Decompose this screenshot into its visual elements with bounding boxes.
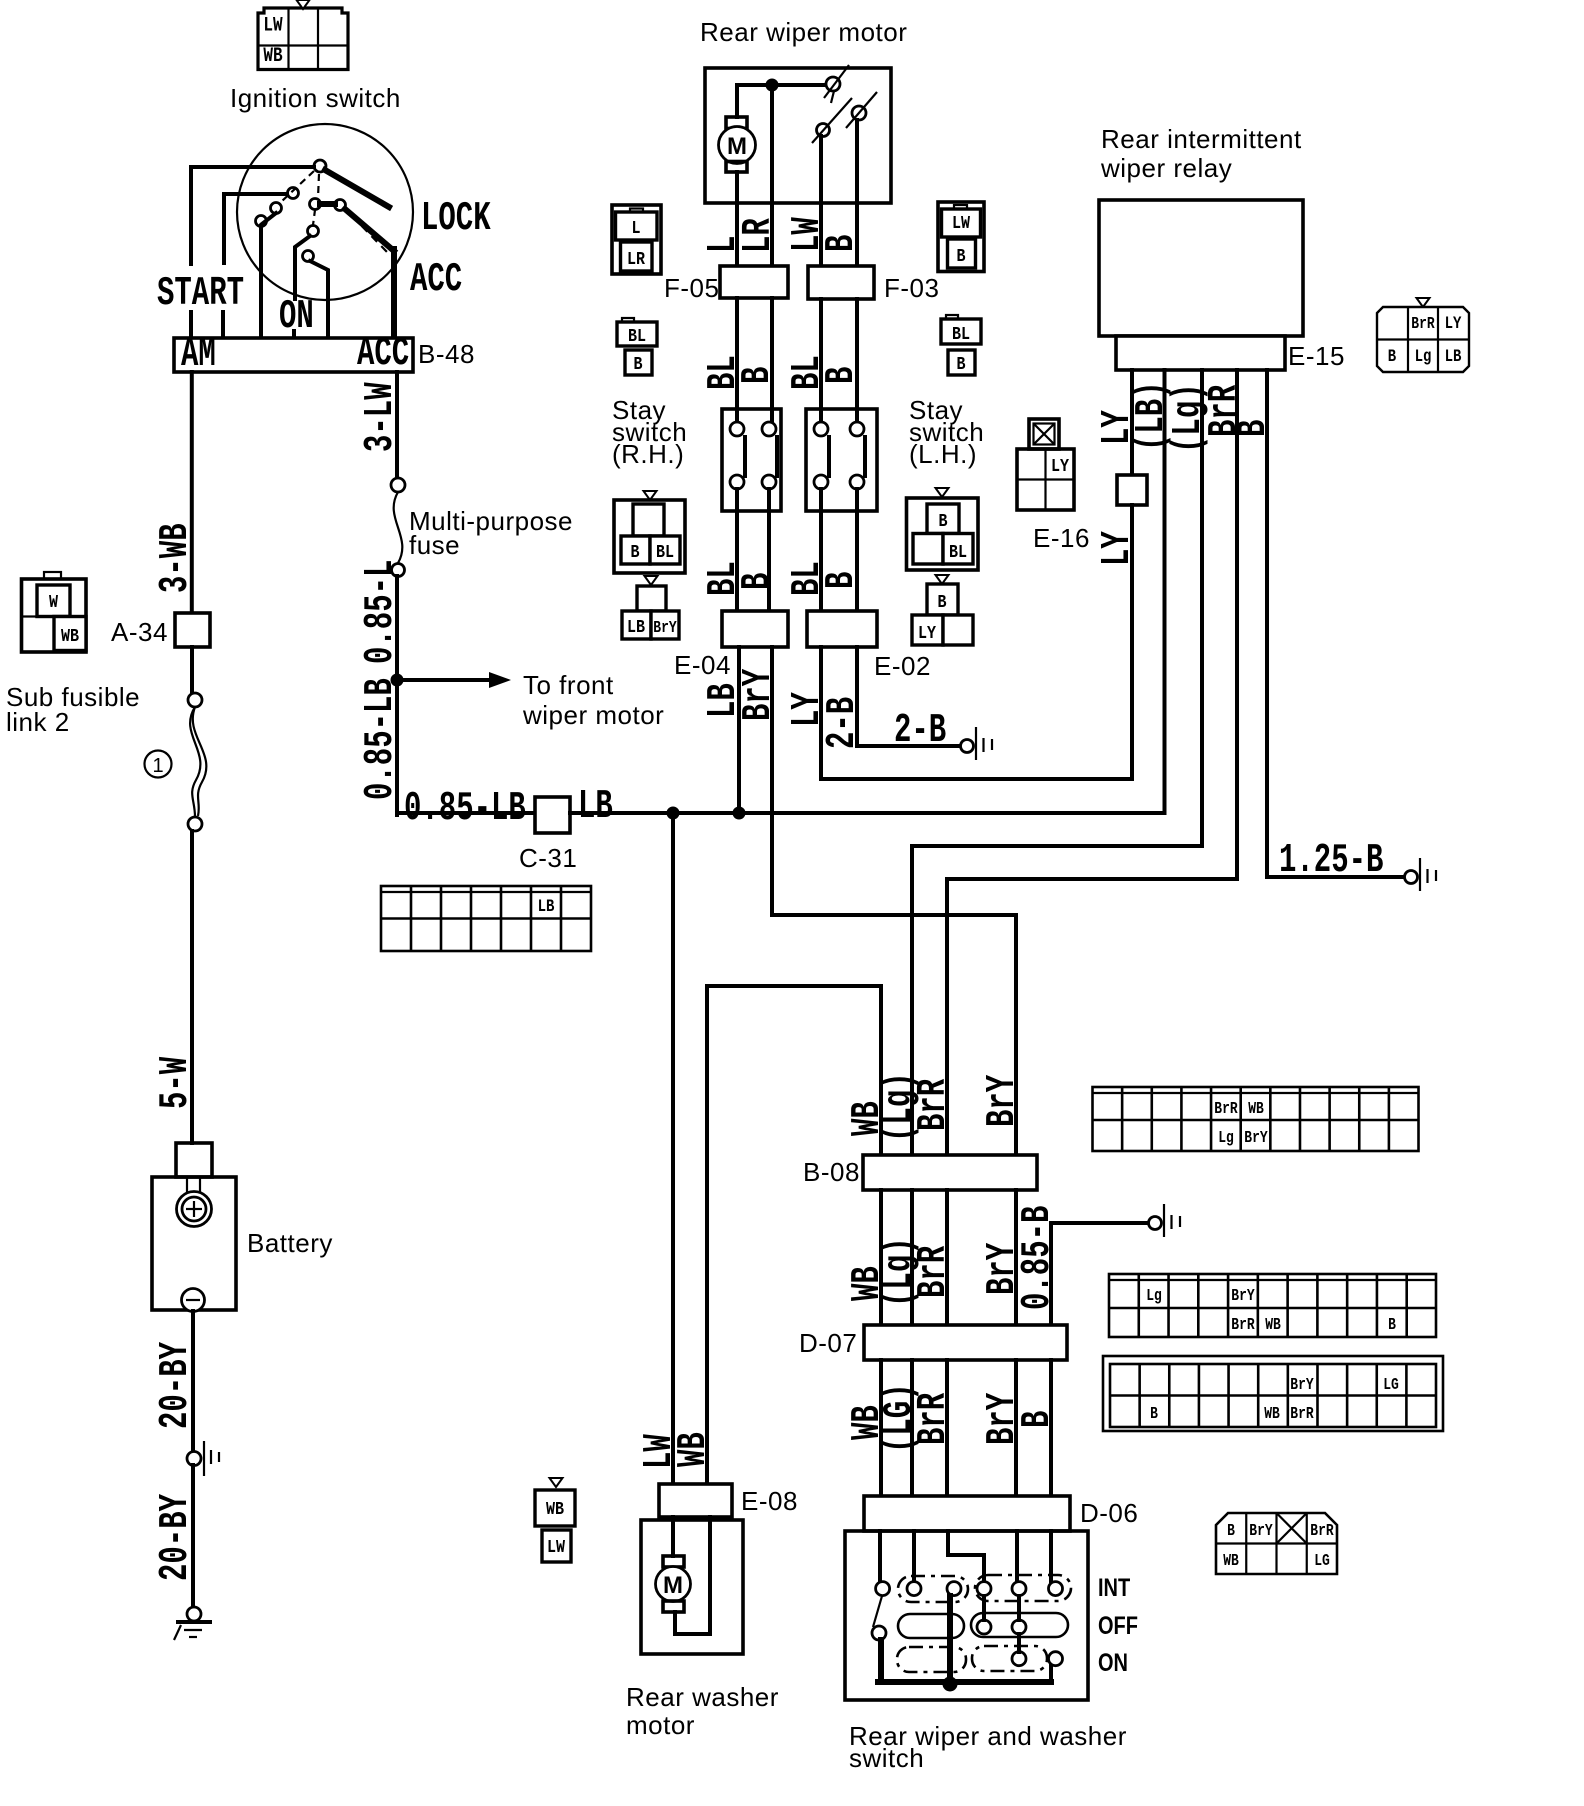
svg-text:LW: LW <box>547 1538 566 1559</box>
svg-text:AM: AM <box>181 330 216 377</box>
svg-text:ACC: ACC <box>357 329 409 376</box>
svg-text:LY: LY <box>1051 457 1070 478</box>
wire B stay LH to E-02 <box>855 489 859 611</box>
battery box <box>152 1177 236 1310</box>
svg-text:B: B <box>937 593 946 614</box>
connector C-31 box <box>535 797 570 833</box>
connector D-06 box <box>864 1496 1070 1531</box>
svg-text:BrR: BrR <box>909 1245 956 1298</box>
svg-text:B: B <box>1150 1406 1158 1424</box>
wire motor top bus <box>737 83 826 87</box>
wire BrR D-07 to D-06 <box>945 1360 949 1496</box>
svg-text:0.85-LB: 0.85-LB <box>356 678 403 800</box>
svg-text:Lg: Lg <box>1415 347 1432 367</box>
svg-text:LG: LG <box>1314 1553 1330 1571</box>
svg-text:M: M <box>727 133 747 160</box>
connector B-08 pin table <box>1093 1087 1419 1151</box>
wire BrY below E-04 to B-08 <box>772 647 1016 1155</box>
wire LY below E-02 to relay LY <box>821 647 1132 779</box>
connector E-04 box <box>722 611 788 647</box>
svg-text:B: B <box>938 512 947 533</box>
switch wires from D-06 <box>880 1531 1051 1581</box>
svg-text:F-03: F-03 <box>884 273 939 303</box>
svg-text:LB: LB <box>627 618 645 639</box>
svg-text:B: B <box>956 355 965 376</box>
pin connector BL/B (left) <box>617 318 657 376</box>
connector A-34 box <box>175 613 210 647</box>
svg-text:W: W <box>49 593 59 614</box>
connector B-48 pin grid (ignition switch connector) <box>258 0 348 70</box>
wire 0.85-LB horizontal to C-31 <box>397 811 535 815</box>
svg-text:(R.H.): (R.H.) <box>612 439 684 469</box>
stay switch RH contacts <box>730 422 777 489</box>
connector E-16 pin grid <box>1017 449 1074 510</box>
wire 3-LW from B-48 ACC down <box>395 372 399 478</box>
svg-text:BrY: BrY <box>734 668 781 721</box>
svg-text:START: START <box>157 269 244 316</box>
svg-text:B: B <box>817 367 864 384</box>
svg-text:BrY: BrY <box>653 620 677 638</box>
body ground tap on 20-BY <box>187 1441 219 1476</box>
svg-text:BrY: BrY <box>1244 1130 1268 1148</box>
wire from contact to AM column 2 <box>224 194 287 263</box>
svg-text:B: B <box>733 573 780 590</box>
stay switch RH pin connector 1 <box>614 491 685 573</box>
svg-text:Rear intermittent: Rear intermittent <box>1101 124 1302 154</box>
svg-text:LY: LY <box>1445 314 1462 334</box>
wire BrY D-07 to D-06 <box>1014 1360 1018 1496</box>
battery minus terminal <box>182 1289 205 1312</box>
wire ON contact down <box>295 236 310 299</box>
battery positive terminal stub <box>176 1143 212 1177</box>
stay switch RH pin connector 2 <box>622 576 679 639</box>
switch INT row capsules (dashed) <box>898 1575 1071 1602</box>
svg-text:link 2: link 2 <box>6 707 70 737</box>
svg-text:1: 1 <box>152 755 163 777</box>
wire from pivot to AM (START wire) <box>191 167 314 264</box>
svg-text:B-08: B-08 <box>803 1157 860 1187</box>
svg-text:BrR: BrR <box>1411 316 1435 334</box>
A-34 pin connector symbol <box>22 572 87 652</box>
connector B-08 box <box>863 1155 1037 1190</box>
connector E-02 box <box>807 611 877 647</box>
wire below A-34 <box>190 647 194 693</box>
svg-text:B: B <box>630 543 639 564</box>
wire 20-BY below battery <box>191 1311 195 1452</box>
svg-text:C-31: C-31 <box>519 843 577 873</box>
svg-text:LR: LR <box>734 218 781 253</box>
sub fusible link 2 symbol <box>188 693 206 831</box>
svg-text:B: B <box>733 367 780 384</box>
svg-text:LB: LB <box>578 782 613 829</box>
wire B D-07 to D-06 <box>1049 1360 1053 1496</box>
connector E-16 symbol with X <box>1029 419 1059 449</box>
wire LR to F-05 <box>770 203 774 266</box>
washer motor M symbol <box>656 1517 691 1612</box>
connector D-07 pin table <box>1109 1274 1436 1337</box>
wire B from relay to ground 1.25-B <box>1267 370 1404 877</box>
wire BL F-05 to stay switch RH <box>735 298 739 422</box>
wire LR from dot down <box>770 85 774 203</box>
svg-text:To front: To front <box>523 670 614 700</box>
svg-text:LY: LY <box>1093 531 1140 566</box>
svg-text:A-34: A-34 <box>111 617 168 647</box>
connector B-48 (AM/ACC box) <box>174 338 413 372</box>
ground for 2-B <box>961 727 993 760</box>
wire B to F-03 <box>855 203 859 266</box>
svg-text:F-05: F-05 <box>664 273 719 303</box>
stay switch LH contacts <box>814 422 865 489</box>
svg-text:Lg: Lg <box>1218 1130 1234 1148</box>
svg-text:WB: WB <box>1264 1406 1280 1424</box>
svg-text:ON: ON <box>279 292 314 339</box>
svg-text:E-16: E-16 <box>1033 523 1090 553</box>
park switch contact 2 and arm <box>812 98 852 143</box>
svg-text:LB: LB <box>1445 347 1462 367</box>
svg-text:5-W: 5-W <box>151 1056 198 1109</box>
wire (LB) from relay to LB line <box>1163 370 1167 813</box>
wire B from park switch <box>855 120 859 203</box>
svg-text:BrY: BrY <box>1231 1288 1255 1306</box>
svg-text:WB: WB <box>263 46 282 68</box>
switch INT row contacts <box>876 1582 1063 1596</box>
wire BL stay RH to E-04 <box>735 489 739 611</box>
svg-text:wiper relay: wiper relay <box>1100 153 1232 183</box>
wire B stay RH to E-04 <box>767 489 771 611</box>
switch ON row capsules (dashed) <box>897 1646 1047 1672</box>
wire LY lower <box>1130 505 1134 779</box>
wire (LG) D-07 to D-06 <box>910 1360 914 1496</box>
svg-text:BrY: BrY <box>978 1074 1025 1127</box>
svg-text:B: B <box>1013 1411 1060 1428</box>
park switch contact 3 <box>846 92 877 128</box>
switch common junction dot <box>943 1677 958 1692</box>
connector F-03 box <box>808 266 874 299</box>
svg-text:0.85-B: 0.85-B <box>1013 1206 1060 1310</box>
joint box on LY wire <box>1117 475 1147 505</box>
wire B F-03 to stay switch LH <box>855 299 859 422</box>
ground 1.25-B <box>1405 858 1437 891</box>
pin connector L/LR (F-05 pins) <box>612 205 661 274</box>
svg-text:Lg: Lg <box>1146 1288 1162 1306</box>
svg-text:E-02: E-02 <box>874 651 931 681</box>
switch OFF row capsules <box>898 1613 1068 1638</box>
svg-text:B: B <box>1388 347 1397 367</box>
connector E-08 box <box>659 1484 732 1517</box>
svg-text:D-06: D-06 <box>1080 1498 1138 1528</box>
svg-text:LB: LB <box>538 897 555 917</box>
wire LY from relay <box>1130 370 1134 475</box>
arrow to front wiper motor <box>397 672 511 688</box>
svg-text:BL: BL <box>952 325 970 346</box>
svg-text:fuse: fuse <box>409 530 460 560</box>
svg-text:20-BY: 20-BY <box>151 1341 198 1429</box>
svg-text:B: B <box>956 247 965 268</box>
svg-text:LG: LG <box>1383 1377 1399 1395</box>
svg-text:LW: LW <box>263 15 282 37</box>
wire LW washer branch <box>671 813 675 1484</box>
svg-text:wiper motor: wiper motor <box>522 700 664 730</box>
junction dot LB to E-04 <box>733 807 746 820</box>
svg-text:3-LW: 3-LW <box>356 382 403 452</box>
battery plus terminal <box>177 1177 212 1227</box>
ACC heavy wire down to box <box>391 249 397 338</box>
svg-text:Battery: Battery <box>247 1228 333 1258</box>
svg-text:B: B <box>633 355 642 376</box>
switch ON row contacts <box>1012 1652 1063 1666</box>
svg-text:Rear washer: Rear washer <box>626 1682 779 1712</box>
svg-text:WB: WB <box>1265 1317 1281 1335</box>
svg-text:BrY: BrY <box>1249 1523 1273 1541</box>
junction dot in motor box <box>766 79 779 92</box>
connector E-15 pin grid <box>1377 298 1469 372</box>
stay switch LH pin connector 2 <box>912 575 973 645</box>
svg-text:BL: BL <box>656 543 674 564</box>
rear washer motor box <box>641 1520 743 1654</box>
svg-text:B: B <box>817 572 864 589</box>
svg-text:E-08: E-08 <box>741 1486 798 1516</box>
svg-text:B-48: B-48 <box>418 339 475 369</box>
wire WB B-08 to D-07 <box>879 1190 883 1325</box>
ignition dashed position lines <box>318 174 319 198</box>
wire contact to column 5 <box>310 261 328 338</box>
wire (Lg) B-08 to D-07 <box>910 1190 914 1325</box>
connector D-07 box <box>864 1325 1067 1360</box>
svg-text:motor: motor <box>626 1710 695 1740</box>
wire 3-WB from B-48 AM to A-34 <box>190 372 194 613</box>
svg-text:LR: LR <box>627 250 646 271</box>
ignition switch pivot and contacts <box>256 160 346 262</box>
svg-text:B: B <box>1388 1317 1396 1335</box>
wire BrR from relay to B-08 <box>947 370 1237 1155</box>
pin connector BL/B (right) <box>941 315 981 376</box>
wire BL stay LH to E-02 <box>819 489 823 611</box>
connector F-05 box <box>720 266 788 298</box>
svg-text:BL: BL <box>949 543 967 564</box>
svg-text:BrR: BrR <box>1310 1523 1334 1541</box>
svg-text:1.25-B: 1.25-B <box>1279 836 1383 883</box>
svg-text:L: L <box>631 219 640 240</box>
contact bar between contacts <box>320 201 335 207</box>
rear wiper motor box <box>705 68 891 203</box>
svg-text:E-04: E-04 <box>674 650 731 680</box>
ignition switch body circle <box>237 124 413 300</box>
switch movable arm <box>873 1596 882 1627</box>
svg-text:WB: WB <box>546 1500 564 1521</box>
ignition ACC arm (heavy diagonal) <box>345 209 394 251</box>
park switch contact 1 <box>824 65 849 103</box>
pin connector LW/B (F-03 pins) <box>938 202 984 272</box>
svg-text:B: B <box>817 235 864 252</box>
ignition LOCK arm (heavy diagonal) <box>325 170 389 207</box>
svg-text:BrY: BrY <box>1290 1377 1314 1395</box>
svg-text:B: B <box>1227 1523 1235 1541</box>
connector E-15 strip <box>1116 336 1285 370</box>
pin connector WB/LW (washer) <box>535 1478 575 1562</box>
switch column links <box>984 1596 1019 1652</box>
svg-text:BrR: BrR <box>1231 1317 1255 1335</box>
switch common bus (heavy) <box>878 1596 1051 1684</box>
wire BrR B-08 to D-07 <box>945 1190 949 1325</box>
svg-text:WB: WB <box>61 627 79 648</box>
svg-text:Rear wiper motor: Rear wiper motor <box>700 17 907 47</box>
wire 0.85-B from D-07 to ground <box>1051 1223 1148 1325</box>
rear intermittent wiper relay box <box>1099 200 1303 336</box>
wire 5-W from fusible link to battery <box>190 831 194 1143</box>
svg-text:BrR: BrR <box>909 1392 956 1445</box>
svg-text:2-B: 2-B <box>818 697 865 749</box>
svg-text:2-B: 2-B <box>894 706 946 753</box>
wire WB inside washer motor <box>675 1517 710 1634</box>
svg-text:LY: LY <box>918 624 937 645</box>
wire contact to AM column 3 <box>262 213 276 224</box>
stay switch LH pin connector 1 <box>907 488 979 570</box>
svg-text:0.85-LB: 0.85-LB <box>404 784 526 831</box>
connector C-31 pin table <box>381 886 591 951</box>
stay switch LH box <box>806 409 877 511</box>
svg-text:D-07: D-07 <box>799 1328 857 1358</box>
svg-text:BL: BL <box>628 327 646 348</box>
wire BrY B-08 to D-07 <box>1014 1190 1018 1325</box>
svg-text:E-15: E-15 <box>1288 341 1345 371</box>
svg-text:WB: WB <box>1248 1101 1264 1119</box>
svg-text:M: M <box>663 1572 683 1599</box>
circled 1 marker <box>145 751 172 778</box>
wire LB below E-04 <box>737 647 741 813</box>
svg-text:ON: ON <box>1098 1649 1128 1677</box>
svg-text:OFF: OFF <box>1098 1612 1138 1640</box>
svg-text:BrR: BrR <box>909 1078 956 1131</box>
wire L motor to F-05 <box>735 203 739 266</box>
wire LB from C-31 to relay (LB) <box>570 811 1165 815</box>
svg-text:BrR: BrR <box>1290 1406 1314 1424</box>
wire 0.85-L <box>395 576 399 815</box>
wire WB D-07 to D-06 <box>879 1360 883 1496</box>
svg-text:3-WB: 3-WB <box>151 523 198 593</box>
junction to front wiper motor <box>391 674 404 687</box>
svg-text:Ignition switch: Ignition switch <box>230 83 401 113</box>
svg-text:0.85-L: 0.85-L <box>356 560 403 664</box>
svg-text:BrR: BrR <box>1214 1101 1238 1119</box>
svg-text:WB: WB <box>1223 1553 1239 1571</box>
stay switch RH box <box>722 409 781 511</box>
ground 0.85-B <box>1149 1204 1181 1237</box>
svg-text:20-BY: 20-BY <box>151 1493 198 1581</box>
wire B F-05 to stay switch RH <box>770 298 774 422</box>
svg-text:WB: WB <box>669 1432 716 1467</box>
multi-purpose fuse symbol <box>391 478 405 577</box>
connector D-06 table <box>1103 1356 1443 1431</box>
svg-text:ACC: ACC <box>410 255 462 302</box>
motor M symbol (rear wiper) <box>719 85 756 203</box>
junction dot LW washer branch <box>667 807 680 820</box>
svg-text:switch: switch <box>849 1743 924 1773</box>
rear wiper and washer switch box <box>845 1531 1088 1700</box>
svg-text:B: B <box>1229 420 1276 437</box>
ground at battery chain bottom <box>174 1607 210 1640</box>
wire 2-B to ground <box>857 647 960 746</box>
wire 20-BY lower <box>191 1465 195 1607</box>
wire LW to F-03 <box>819 203 823 266</box>
wire LW from park switch <box>819 136 823 203</box>
wire BL F-03 to stay switch LH <box>819 299 823 422</box>
svg-text:(L.H.): (L.H.) <box>909 439 977 469</box>
svg-text:LW: LW <box>952 214 971 235</box>
pin connector bottom right (D-06 pins) <box>1216 1513 1337 1574</box>
svg-text:LOCK: LOCK <box>421 194 491 241</box>
wire (Lg) from relay to B-08 <box>912 370 1202 1155</box>
wire WB washer to B-08 <box>707 986 881 1484</box>
switch OFF row contacts <box>872 1620 1026 1640</box>
svg-text:INT: INT <box>1098 1574 1130 1602</box>
